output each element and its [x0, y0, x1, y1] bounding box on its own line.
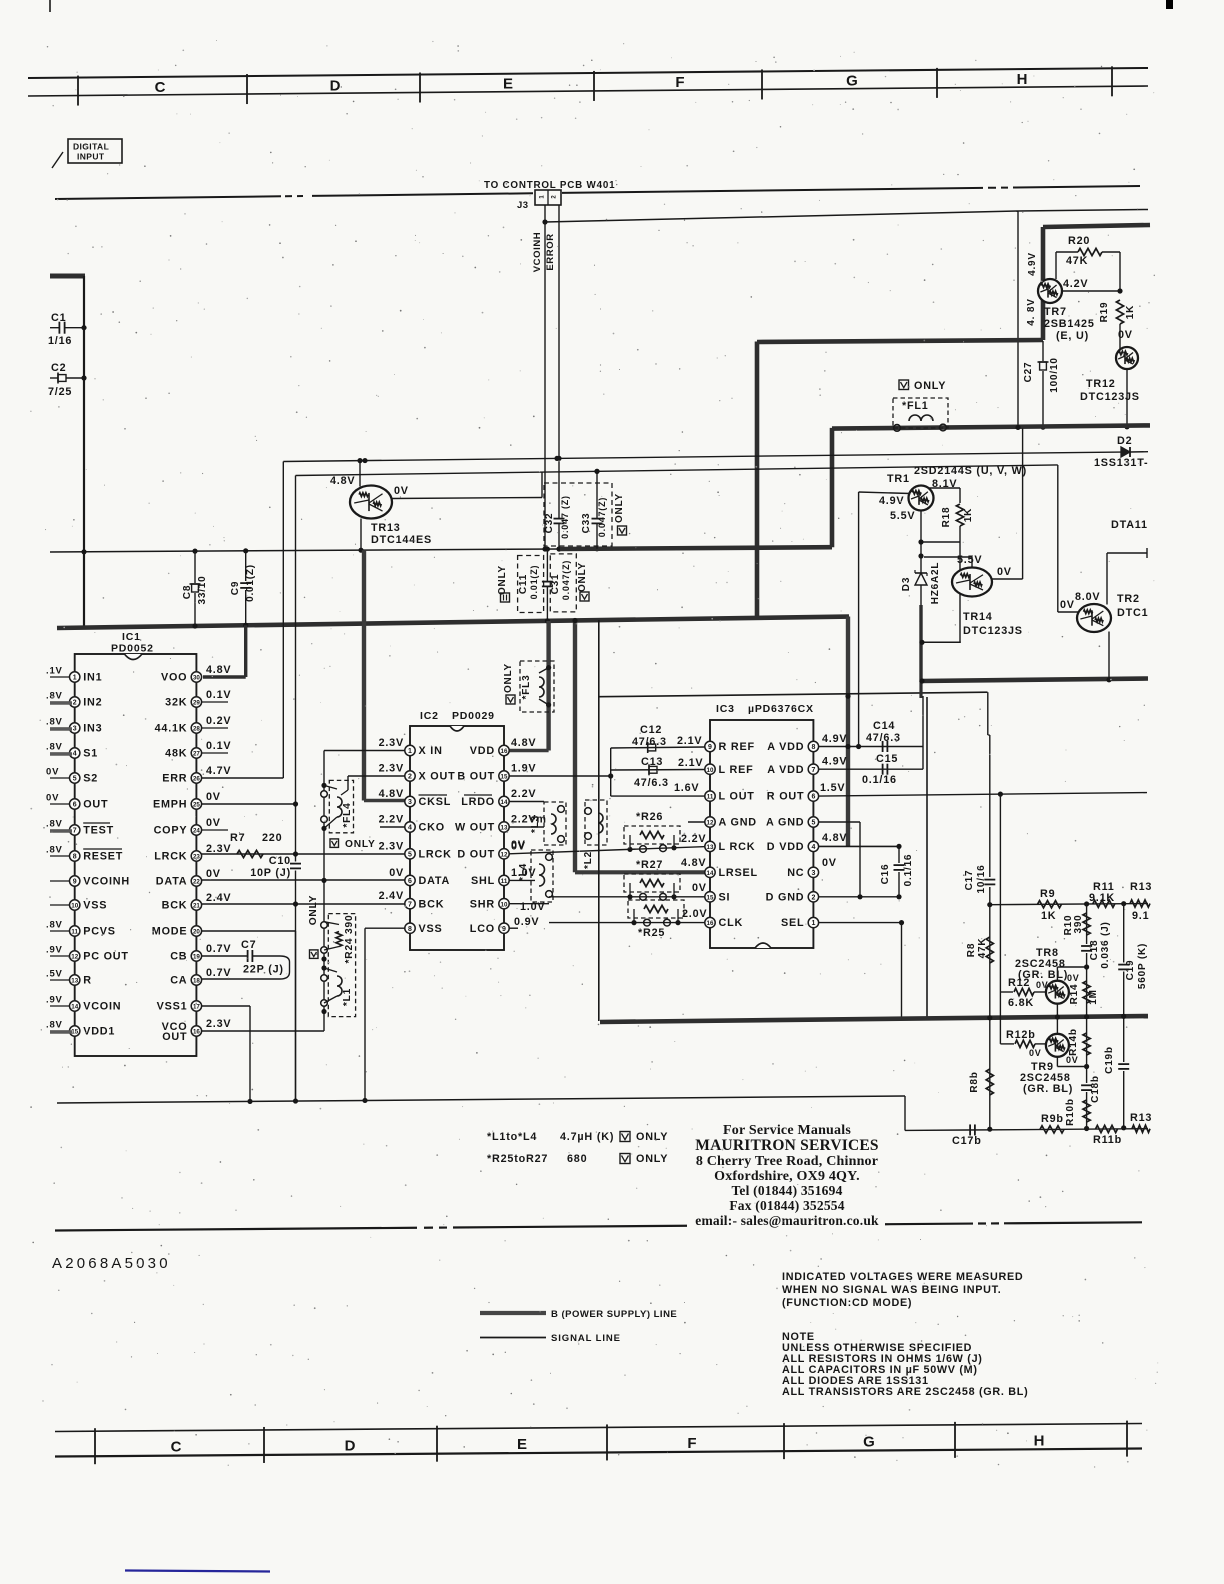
svg-text:10: 10	[501, 901, 508, 908]
svg-text:Fax (01844) 352554: Fax (01844) 352554	[729, 1198, 844, 1213]
svg-text:IC1: IC1	[122, 631, 141, 643]
svg-text:.8V: .8V	[46, 691, 63, 702]
svg-text:LRDO: LRDO	[461, 796, 495, 808]
svg-text:R12b: R12b	[1006, 1029, 1036, 1041]
svg-text:2.4V: 2.4V	[379, 890, 404, 902]
svg-text:5: 5	[73, 776, 77, 783]
svg-text:A VDD: A VDD	[767, 764, 804, 776]
svg-text:µPD6376CX: µPD6376CX	[748, 703, 814, 715]
svg-text:IN1: IN1	[83, 672, 102, 684]
svg-text:WHEN NO SIGNAL WAS BEING INPUT: WHEN NO SIGNAL WAS BEING INPUT.	[782, 1284, 1001, 1296]
svg-text:B (POWER SUPPLY) LINE: B (POWER SUPPLY) LINE	[551, 1309, 677, 1320]
svg-text:5.5V: 5.5V	[957, 554, 982, 566]
svg-text:CB: CB	[170, 951, 187, 963]
svg-text:1.0V: 1.0V	[520, 901, 545, 913]
svg-text:OUT: OUT	[162, 1031, 187, 1043]
svg-text:0.7V: 0.7V	[206, 967, 231, 979]
svg-text:6: 6	[811, 794, 815, 801]
svg-text:(GR. BL): (GR. BL)	[1023, 1083, 1073, 1095]
svg-text:R19: R19	[1099, 302, 1110, 323]
svg-text:X OUT: X OUT	[419, 771, 456, 783]
svg-text:PD0029: PD0029	[452, 710, 495, 722]
svg-text:A GND: A GND	[719, 817, 757, 829]
svg-text:*R24 390: *R24 390	[344, 915, 355, 964]
svg-text:HZ6A2L: HZ6A2L	[930, 562, 941, 605]
svg-text:SIGNAL LINE: SIGNAL LINE	[551, 1333, 621, 1344]
svg-text:10: 10	[71, 903, 78, 910]
svg-text:ONLY: ONLY	[577, 562, 588, 592]
svg-text:0V: 0V	[511, 839, 526, 851]
svg-text:S2: S2	[83, 773, 98, 785]
svg-text:2SB1425: 2SB1425	[1044, 318, 1095, 330]
svg-text:MODE: MODE	[152, 926, 188, 938]
svg-text:12: 12	[501, 851, 508, 858]
svg-text:ONLY: ONLY	[636, 1153, 668, 1165]
svg-text:4: 4	[811, 844, 815, 851]
svg-text:4.9V: 4.9V	[822, 756, 847, 768]
svg-text:(GR. BL): (GR. BL)	[1018, 969, 1068, 981]
svg-text:R13: R13	[1130, 1112, 1152, 1124]
svg-text:IC2: IC2	[420, 710, 439, 722]
svg-text:44.1K: 44.1K	[155, 723, 188, 735]
svg-text:1: 1	[408, 748, 412, 755]
svg-text:17: 17	[193, 1004, 200, 1011]
svg-text:ONLY: ONLY	[497, 565, 508, 595]
svg-text:1: 1	[73, 675, 77, 682]
svg-text:4.8V: 4.8V	[822, 832, 847, 844]
svg-text:33/10: 33/10	[197, 575, 208, 604]
svg-text:2.4V: 2.4V	[206, 892, 231, 904]
svg-text:.8V: .8V	[46, 742, 63, 753]
svg-text:15: 15	[71, 1029, 78, 1036]
svg-text:A2068A5030: A2068A5030	[52, 1255, 171, 1272]
svg-text:VDD: VDD	[470, 745, 495, 757]
svg-text:R14b: R14b	[1068, 1028, 1079, 1056]
svg-text:Oxfordshire, OX9 4QY.: Oxfordshire, OX9 4QY.	[714, 1169, 860, 1184]
svg-text:1.9V: 1.9V	[511, 763, 536, 775]
svg-text:C18: C18	[1089, 940, 1100, 961]
svg-text:RESET: RESET	[83, 851, 123, 863]
svg-text:DIGITAL: DIGITAL	[73, 142, 109, 152]
svg-text:0V: 0V	[206, 791, 221, 803]
svg-text:C17b: C17b	[952, 1135, 982, 1147]
svg-text:8: 8	[73, 854, 77, 861]
svg-text:1SS131T-: 1SS131T-	[1094, 457, 1148, 469]
svg-text:4. 8V: 4. 8V	[1026, 298, 1037, 325]
svg-text:S1: S1	[83, 748, 98, 760]
svg-text:14: 14	[501, 799, 508, 806]
svg-text:R: R	[83, 975, 92, 987]
svg-text:6.8K: 6.8K	[1008, 997, 1034, 1009]
svg-text:16: 16	[707, 920, 714, 927]
svg-text:C33: C33	[581, 513, 592, 534]
svg-text:0.9V: 0.9V	[514, 916, 539, 928]
svg-text:D GND: D GND	[766, 891, 805, 903]
svg-text:VOO: VOO	[161, 672, 187, 684]
svg-text:4.9V: 4.9V	[822, 733, 847, 745]
svg-text:0V: 0V	[1060, 599, 1075, 611]
svg-text:4: 4	[408, 825, 412, 832]
svg-text:For Service Manuals: For Service Manuals	[723, 1123, 851, 1138]
svg-text:L RCK: L RCK	[719, 841, 756, 853]
svg-text:25: 25	[193, 802, 200, 809]
svg-text:0.1/16: 0.1/16	[862, 774, 897, 786]
svg-text:R8b: R8b	[969, 1071, 980, 1092]
svg-text:15: 15	[707, 894, 714, 901]
svg-text:0V: 0V	[1118, 329, 1133, 341]
svg-text:ERROR: ERROR	[545, 233, 556, 270]
svg-text:R OUT: R OUT	[767, 791, 805, 803]
svg-text:0.047 (Z): 0.047 (Z)	[560, 495, 570, 539]
svg-text:C31: C31	[550, 574, 561, 595]
svg-text:29: 29	[193, 700, 200, 707]
svg-text:4.8V: 4.8V	[330, 475, 355, 487]
svg-text:R14: R14	[1069, 984, 1080, 1005]
svg-text:C: C	[155, 79, 166, 96]
svg-text:0.1/16: 0.1/16	[903, 854, 914, 887]
svg-text:*L2: *L2	[583, 851, 594, 869]
svg-text:SHR: SHR	[470, 898, 495, 910]
svg-text:MAURITRON SERVICES: MAURITRON SERVICES	[695, 1137, 879, 1154]
svg-text:0.1V: 0.1V	[206, 689, 231, 701]
svg-text:F: F	[675, 74, 684, 91]
svg-text:VCOINH: VCOINH	[83, 876, 130, 888]
svg-text:8.0V: 8.0V	[1075, 591, 1100, 603]
svg-text:OUT: OUT	[83, 799, 108, 811]
svg-text:DTC123JS: DTC123JS	[1080, 391, 1140, 403]
svg-text:BCK: BCK	[419, 898, 445, 910]
svg-text:8: 8	[811, 744, 815, 751]
svg-text:C27: C27	[1023, 362, 1034, 383]
svg-text:A GND: A GND	[766, 817, 804, 829]
svg-text:0.01(Z): 0.01(Z)	[529, 565, 539, 600]
svg-text:0V: 0V	[46, 767, 59, 778]
svg-text:ONLY: ONLY	[636, 1131, 668, 1143]
svg-text:19: 19	[193, 954, 200, 961]
svg-text:INDICATED VOLTAGES WERE MEASUR: INDICATED VOLTAGES WERE MEASURED	[782, 1271, 1023, 1283]
svg-text:PD0052: PD0052	[111, 643, 154, 655]
svg-text:.8V: .8V	[46, 920, 63, 931]
svg-text:6: 6	[408, 878, 412, 885]
svg-text:ERR: ERR	[162, 773, 187, 785]
svg-text:LRCK: LRCK	[154, 851, 187, 863]
svg-text:.8V: .8V	[46, 1020, 63, 1031]
svg-text:5: 5	[811, 820, 815, 827]
svg-text:1.6V: 1.6V	[674, 782, 699, 794]
svg-text:27: 27	[193, 751, 200, 758]
svg-text:R10b: R10b	[1065, 1098, 1076, 1126]
svg-text:0V: 0V	[997, 566, 1012, 578]
svg-text:16: 16	[193, 1029, 200, 1036]
svg-text:R REF: R REF	[719, 741, 755, 753]
svg-text:C9: C9	[230, 581, 241, 595]
svg-text:ONLY: ONLY	[308, 895, 319, 926]
svg-text:BCK: BCK	[162, 900, 188, 912]
svg-text:15: 15	[501, 774, 508, 781]
svg-text:2: 2	[811, 894, 815, 901]
svg-text:560P (K): 560P (K)	[1137, 943, 1148, 989]
svg-text:7: 7	[73, 828, 77, 835]
svg-text:16: 16	[501, 748, 508, 755]
svg-text:2.1V: 2.1V	[678, 757, 703, 769]
svg-text:390: 390	[1073, 914, 1084, 933]
svg-text:0V: 0V	[46, 793, 59, 804]
svg-text:C32: C32	[544, 513, 555, 534]
svg-text:SI: SI	[719, 891, 731, 903]
svg-text:C19: C19	[1125, 960, 1136, 981]
svg-text:C: C	[171, 1439, 182, 1456]
svg-text:3: 3	[408, 799, 412, 806]
svg-text:Tel (01844) 351694: Tel (01844) 351694	[731, 1183, 842, 1198]
svg-text:0.047(Z): 0.047(Z)	[597, 497, 607, 537]
svg-text:(E, U): (E, U)	[1056, 330, 1089, 342]
svg-text:VSS1: VSS1	[157, 1001, 188, 1013]
svg-text:CA: CA	[170, 975, 187, 987]
svg-text:C11: C11	[518, 574, 529, 594]
svg-text:L OUT: L OUT	[719, 791, 755, 803]
svg-text:ONLY: ONLY	[614, 493, 625, 523]
svg-text:2.1V: 2.1V	[677, 735, 702, 747]
svg-text:IN3: IN3	[83, 723, 102, 735]
svg-text:0.047(Z): 0.047(Z)	[561, 560, 571, 600]
svg-text:DATA: DATA	[419, 875, 451, 887]
svg-text:.8V: .8V	[46, 845, 63, 856]
svg-text:11: 11	[71, 929, 78, 936]
svg-text:0V: 0V	[206, 817, 221, 829]
svg-text:R8: R8	[966, 943, 977, 957]
svg-text:IN2: IN2	[83, 697, 102, 709]
svg-text:DTA11: DTA11	[1111, 519, 1148, 531]
svg-text:20: 20	[193, 929, 200, 936]
svg-text:*R26: *R26	[636, 811, 663, 823]
svg-text:DATA: DATA	[156, 876, 188, 888]
svg-text:4: 4	[73, 751, 77, 758]
svg-text:C8: C8	[182, 585, 193, 599]
svg-text:LRCK: LRCK	[419, 848, 452, 860]
svg-text:13: 13	[71, 978, 78, 985]
svg-text:VDD1: VDD1	[83, 1026, 115, 1038]
svg-text:2.2V: 2.2V	[681, 833, 706, 845]
svg-text:L REF: L REF	[719, 764, 754, 776]
svg-text:B OUT: B OUT	[457, 771, 495, 783]
svg-text:*R25toR27: *R25toR27	[487, 1153, 548, 1165]
svg-text:VCOINH: VCOINH	[532, 232, 543, 273]
svg-text:5.5V: 5.5V	[890, 510, 915, 522]
svg-text:13: 13	[501, 825, 508, 832]
svg-text:220: 220	[262, 832, 282, 844]
svg-text:48K: 48K	[165, 748, 187, 760]
svg-text:TEST: TEST	[83, 825, 114, 837]
svg-text:TR12: TR12	[1086, 378, 1116, 390]
svg-text:D OUT: D OUT	[457, 848, 495, 860]
svg-text:9.1K: 9.1K	[1089, 892, 1115, 904]
svg-text:R7: R7	[230, 832, 245, 844]
svg-text:C14: C14	[873, 720, 895, 732]
svg-text:PC OUT: PC OUT	[83, 951, 129, 963]
svg-text:21: 21	[193, 903, 200, 910]
svg-text:4.8V: 4.8V	[511, 737, 536, 749]
svg-text:2: 2	[408, 774, 412, 781]
svg-text:7: 7	[408, 901, 412, 908]
svg-text:*FL3: *FL3	[521, 675, 532, 700]
svg-text:11: 11	[707, 794, 714, 801]
svg-text:email:- sales@mauritron.co.uk: email:- sales@mauritron.co.uk	[695, 1213, 879, 1228]
svg-text:12: 12	[707, 820, 714, 827]
svg-text:.5V: .5V	[46, 969, 63, 980]
svg-text:2.2Vm: 2.2Vm	[511, 814, 547, 826]
svg-text:1.5V: 1.5V	[820, 782, 845, 794]
svg-text:ONLY: ONLY	[503, 663, 514, 693]
svg-text:IC3: IC3	[716, 703, 735, 715]
svg-text:2: 2	[73, 700, 77, 707]
svg-text:1: 1	[811, 920, 815, 927]
svg-text:0.1V: 0.1V	[206, 740, 231, 752]
svg-text:TR14: TR14	[963, 611, 993, 623]
svg-text:D VDD: D VDD	[767, 841, 805, 853]
svg-text:47/6.3: 47/6.3	[634, 777, 669, 789]
svg-text:*L1: *L1	[342, 988, 353, 1006]
svg-text:TR2: TR2	[1117, 593, 1140, 605]
svg-text:ONLY: ONLY	[914, 380, 946, 392]
svg-text:0V: 0V	[1029, 1048, 1042, 1058]
svg-text:2.3V: 2.3V	[206, 843, 231, 855]
svg-text:5: 5	[408, 851, 412, 858]
svg-text:J3: J3	[517, 200, 529, 211]
svg-text:EMPH: EMPH	[153, 799, 187, 811]
svg-text:W OUT: W OUT	[455, 822, 495, 834]
svg-text:R11b: R11b	[1093, 1134, 1122, 1146]
svg-text:14: 14	[71, 1004, 78, 1011]
svg-text:47/6.3: 47/6.3	[866, 732, 901, 744]
svg-text:R20: R20	[1068, 235, 1090, 247]
svg-text:26: 26	[193, 776, 200, 783]
svg-text:7: 7	[811, 767, 815, 774]
svg-text:DTC1: DTC1	[1117, 607, 1148, 619]
svg-text:SEL: SEL	[781, 917, 804, 929]
svg-text:30: 30	[193, 675, 200, 682]
svg-text:.1V: .1V	[46, 666, 63, 677]
svg-text:C15: C15	[876, 753, 898, 765]
svg-text:2.3V: 2.3V	[379, 763, 404, 775]
svg-text:9: 9	[708, 744, 712, 751]
svg-text:.9V: .9V	[46, 945, 63, 956]
svg-text:1M: 1M	[1088, 989, 1099, 1005]
svg-text:D3: D3	[901, 577, 912, 591]
svg-text:C17: C17	[964, 870, 975, 891]
svg-text:CKO: CKO	[419, 822, 445, 834]
svg-text:22P (J): 22P (J)	[243, 964, 284, 976]
svg-text:TR13: TR13	[371, 522, 401, 534]
svg-text:47/6.3: 47/6.3	[632, 736, 667, 748]
svg-text:ALL TRANSISTORS ARE 2SC2458 (G: ALL TRANSISTORS ARE 2SC2458 (GR. BL)	[782, 1386, 1028, 1398]
svg-text:INPUT: INPUT	[77, 152, 105, 162]
svg-text:C18b: C18b	[1090, 1075, 1101, 1103]
svg-text:VSS: VSS	[83, 900, 107, 912]
svg-text:0.7V: 0.7V	[206, 943, 231, 955]
svg-text:9.1: 9.1	[1132, 910, 1149, 922]
svg-text:13: 13	[707, 844, 714, 851]
svg-text:10: 10	[707, 767, 714, 774]
svg-text:D2: D2	[1117, 435, 1132, 447]
svg-text:C2: C2	[51, 362, 66, 374]
svg-text:11: 11	[501, 878, 508, 885]
svg-text:4.8V: 4.8V	[681, 857, 706, 869]
svg-text:9: 9	[73, 879, 77, 886]
svg-text:0.2V: 0.2V	[206, 715, 231, 727]
svg-text:47K: 47K	[977, 938, 988, 959]
svg-text:3: 3	[811, 870, 815, 877]
svg-text:7/25: 7/25	[48, 386, 72, 398]
svg-text:10/16: 10/16	[976, 864, 987, 893]
svg-text:4.7µH (K): 4.7µH (K)	[560, 1131, 614, 1143]
svg-text:(FUNCTION:CD MODE): (FUNCTION:CD MODE)	[782, 1297, 912, 1309]
svg-text:R18: R18	[941, 507, 952, 528]
svg-text:2.3V: 2.3V	[379, 840, 404, 852]
svg-text:TR7: TR7	[1044, 306, 1067, 318]
svg-text:*R27: *R27	[636, 859, 663, 871]
svg-text:2.2V: 2.2V	[379, 814, 404, 826]
svg-text:22: 22	[193, 879, 200, 886]
svg-text:*FL1: *FL1	[902, 400, 929, 412]
svg-text:.9V: .9V	[46, 995, 63, 1006]
svg-text:4.9V: 4.9V	[1027, 252, 1038, 276]
svg-text:C16: C16	[880, 864, 891, 885]
svg-text:18: 18	[193, 978, 200, 985]
svg-text:12: 12	[71, 954, 78, 961]
svg-text:*L1to*L4: *L1to*L4	[487, 1131, 537, 1143]
svg-text:24: 24	[193, 828, 200, 835]
svg-text:8: 8	[408, 926, 412, 933]
svg-text:4.8V: 4.8V	[379, 788, 404, 800]
svg-text:47K: 47K	[1066, 255, 1088, 267]
svg-text:ONLY: ONLY	[345, 839, 376, 850]
svg-text:1/16: 1/16	[48, 335, 72, 347]
svg-text:E: E	[503, 76, 513, 93]
svg-text:*L3: *L3	[530, 815, 541, 833]
svg-text:SHL: SHL	[471, 875, 495, 887]
svg-text:0V: 0V	[389, 867, 404, 879]
svg-text:CLK: CLK	[719, 917, 744, 929]
svg-text:2.3V: 2.3V	[379, 737, 404, 749]
svg-text:1K: 1K	[1125, 305, 1136, 319]
svg-text:680: 680	[567, 1153, 587, 1165]
svg-text:.8V: .8V	[46, 717, 63, 728]
svg-text:C13: C13	[641, 756, 663, 768]
svg-text:E: E	[517, 1436, 527, 1453]
svg-text:TR1: TR1	[887, 473, 910, 485]
svg-text:3: 3	[73, 726, 77, 733]
svg-text:C1: C1	[51, 312, 66, 324]
svg-text:DTC144ES: DTC144ES	[371, 534, 432, 546]
svg-text:VCOIN: VCOIN	[83, 1001, 121, 1013]
svg-text:*FL4: *FL4	[342, 802, 353, 827]
svg-text:DTC123JS: DTC123JS	[963, 625, 1023, 637]
svg-text:PCVS: PCVS	[83, 926, 116, 938]
svg-text:C12: C12	[640, 724, 662, 736]
svg-text:2.0V: 2.0V	[682, 908, 707, 920]
svg-text:LRSEL: LRSEL	[719, 867, 758, 879]
svg-text:F: F	[687, 1435, 696, 1452]
svg-text:4.8V: 4.8V	[206, 664, 231, 676]
svg-text:H: H	[1017, 71, 1028, 88]
svg-text:C19b: C19b	[1104, 1046, 1115, 1074]
svg-text:6: 6	[73, 802, 77, 809]
svg-text:0V: 0V	[1067, 973, 1080, 983]
svg-text:14: 14	[707, 870, 714, 877]
svg-text:1K: 1K	[1041, 910, 1056, 922]
svg-text:CKSL: CKSL	[419, 796, 452, 808]
svg-text:1K: 1K	[963, 508, 974, 522]
